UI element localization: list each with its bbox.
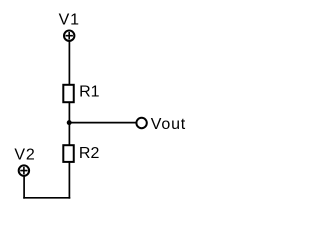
voltage source V2 <box>19 165 29 175</box>
node Vout junction <box>67 120 72 125</box>
terminal Vout <box>136 118 146 128</box>
wire R1 to R2 <box>68 102 70 145</box>
wire V1 to R1 <box>68 41 70 85</box>
wire V2 to bottom rail <box>23 176 25 199</box>
svg-text:V2: V2 <box>14 146 35 163</box>
svg-text:Vout: Vout <box>151 116 186 133</box>
wire node to Vout terminal <box>69 122 136 124</box>
resistor R1 <box>63 85 73 102</box>
resistor R2 <box>63 145 73 162</box>
wire R2 to bottom rail <box>68 162 70 199</box>
svg-text:R1: R1 <box>79 84 100 101</box>
svg-text:R2: R2 <box>79 145 100 162</box>
voltage source V1 <box>64 31 74 41</box>
wire bottom rail <box>23 197 70 199</box>
svg-text:V1: V1 <box>59 12 80 29</box>
